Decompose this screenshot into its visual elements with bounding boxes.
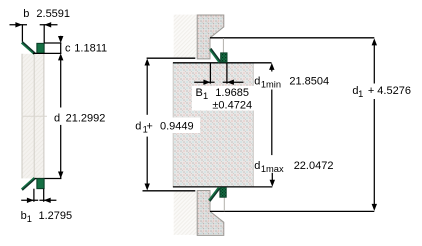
dimension d <box>58 57 63 179</box>
section top-right edge + c top extension <box>44 42 61 44</box>
sleeve flinger block (bottom) <box>197 191 224 236</box>
svg-text:0.9449: 0.9449 <box>160 120 194 132</box>
V-ring body (top section) <box>37 43 44 53</box>
label c 1.1811 <box>65 42 107 54</box>
label d 21.2992 <box>52 110 108 125</box>
svg-text:21.2992: 21.2992 <box>66 113 106 125</box>
svg-text:+: + <box>368 85 374 97</box>
svg-text:b: b <box>21 210 27 222</box>
counterface line (bottom left) <box>143 190 196 192</box>
seal OD extension line (top) <box>222 38 224 53</box>
label B1 1.9685 ±0.4724 <box>192 86 254 112</box>
inner bore leader line (d1+0.9449, top) <box>147 57 196 59</box>
sleeve flinger block (top) <box>197 15 224 59</box>
svg-text:d: d <box>135 120 141 132</box>
shaft top surface line <box>173 62 272 64</box>
bottom section top edge + d extension <box>33 178 61 180</box>
dimension c <box>58 36 63 61</box>
svg-text:±0.4724: ±0.4724 <box>212 100 252 112</box>
section bottom edge + c bottom extension <box>33 52 61 54</box>
svg-text:1max: 1max <box>261 164 284 174</box>
label b1 1.2795 <box>21 210 73 224</box>
dimension b <box>10 22 58 43</box>
bottom OD leader line (to d1+4.5276) <box>210 210 374 212</box>
svg-text:1min: 1min <box>261 80 281 90</box>
mounted V-ring lip (top) <box>210 48 221 62</box>
svg-text:2.5591: 2.5591 <box>36 8 70 20</box>
svg-text:B: B <box>196 87 203 99</box>
shaft bottom surface line <box>173 186 272 188</box>
mounted V-ring body (bottom) <box>220 188 226 198</box>
svg-text:21.8504: 21.8504 <box>289 75 329 87</box>
V-ring body (bottom section) <box>37 179 44 189</box>
svg-text:d: d <box>254 160 260 172</box>
V-ring lip (top section) <box>22 42 36 54</box>
shaft (speckled) <box>173 63 254 187</box>
phantom housing block (top) <box>174 15 198 58</box>
dimension B1 <box>194 80 243 85</box>
seal OD extension line (bottom) <box>223 197 225 211</box>
label d1+ 0.9449 <box>119 118 200 135</box>
dimension b1 <box>21 189 56 203</box>
phantom housing block (bottom) <box>174 191 198 235</box>
svg-text:b: b <box>23 8 29 20</box>
dimension d1+4.5276 <box>372 38 377 211</box>
mounted V-ring lip (bottom) <box>209 188 220 202</box>
svg-text:d: d <box>254 75 260 87</box>
svg-text:1.1811: 1.1811 <box>74 42 107 54</box>
B1 extension lines <box>210 63 227 83</box>
dimension d1min / d1max line <box>269 63 275 187</box>
top OD leader line (to d1+4.5276) <box>210 37 374 39</box>
label b 2.5591 <box>23 8 70 20</box>
svg-text:+: + <box>146 120 152 132</box>
label d1 + 4.5276 <box>347 85 415 99</box>
dimension d1+0.9449 <box>145 59 150 191</box>
V-ring lip (bottom section) <box>22 178 36 190</box>
svg-text:1: 1 <box>203 91 208 101</box>
svg-text:c: c <box>65 42 71 54</box>
svg-text:22.0472: 22.0472 <box>294 160 334 172</box>
svg-text:1.9685: 1.9685 <box>215 87 249 99</box>
label d1max 22.0472 <box>254 160 333 174</box>
svg-text:1: 1 <box>27 214 32 224</box>
label d1min 21.8504 <box>254 75 329 89</box>
svg-text:1.2795: 1.2795 <box>39 210 73 222</box>
mounted V-ring body (top) <box>221 53 227 62</box>
svg-text:4.5276: 4.5276 <box>377 85 411 97</box>
svg-text:1: 1 <box>358 89 363 99</box>
svg-text:d: d <box>54 113 60 125</box>
ghost ring strips (left drawing body continuation) <box>22 54 47 179</box>
